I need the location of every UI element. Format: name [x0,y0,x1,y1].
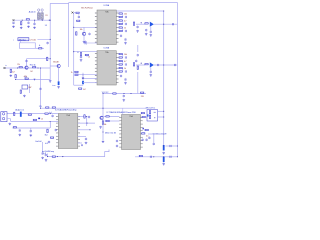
wire mic input bus y20.2 [13,19,51,21]
resistor R26 [119,60,126,63]
junction [50,113,51,114]
label r47 [104,124,107,126]
capacitor C38 electrolytic [163,145,165,151]
svg-text:0.5: 0.5 [146,136,148,138]
capacitor C23 [39,87,41,90]
op-amp A1 [150,22,154,27]
wire to U1 pin y27.3 [74,26,97,28]
label r12 [80,29,83,31]
junction [50,58,51,59]
wire k2 b [158,116,164,118]
svg-text:Audio Out: Audio Out [15,108,24,111]
capacitor C3 [33,22,35,25]
junction [50,121,51,122]
relay tick [147,114,148,116]
IC U3 TDA2009A [56,114,80,149]
wire op-amp1 input y24.2 [136,23,145,25]
resistor R35 [14,112,15,115]
junction [163,145,164,146]
label Audio In [29,10,37,13]
label q2 [53,61,58,63]
wire vcc y93.5 [103,93,146,95]
resistor R48 series [106,120,109,121]
capacitor C21 [123,95,125,98]
capacitor C41 series [170,156,171,158]
mic jack J1 [37,9,43,20]
resistor R49b [141,112,144,113]
junction [141,63,142,64]
resistor R38 [20,90,21,93]
wire x153.8 drop [153,134,155,143]
resistor R33 series [113,93,116,94]
wire a1 gnd [150,27,152,31]
capacitor C27b [48,141,50,144]
capacitor C35 [146,138,148,141]
svg-text:Audio In: Audio In [29,10,37,13]
junction [34,20,35,21]
op-amp A2 [150,62,154,67]
wire row links U2 [122,54,124,72]
relay K2 box [147,110,158,122]
label U2 [104,47,110,50]
svg-text:10k: 10k [124,54,127,56]
resistor R8 series [25,78,28,79]
pot arrow [38,118,43,121]
resistor R7 [15,75,16,78]
capacitor C15 [124,78,127,84]
label mid3 [12,72,15,74]
junction [163,24,164,25]
ground G12 [123,99,126,102]
wire op-amp2 output y65 [154,64,178,66]
transistor Q1 [25,66,28,69]
junction [17,67,18,68]
label k2 [146,107,156,109]
transistor Q3 [82,32,85,35]
capacitor C18 series [175,64,176,66]
label U4 TDA2030 [107,111,136,114]
label r15c [83,89,86,91]
svg-text:in: in [6,65,7,67]
label q4 [71,72,73,74]
junction [163,156,164,157]
ground G19b [136,30,139,33]
junction [73,51,74,52]
wire a2 gnd [150,68,152,71]
capacitor C2 [27,21,29,24]
junction [177,156,178,157]
resistor R39 series on bus [46,107,49,108]
capacitor C33 [116,144,118,147]
ground G2 [20,26,23,29]
capacitor C17 series [158,64,159,66]
ground G4 [33,26,36,29]
wire jack top y113.6 [7,113,59,115]
svg-text:1k: 1k [124,68,126,70]
capacitor C7 [88,32,90,35]
junction [42,20,43,21]
capacitor C5 electrolytic [58,81,60,85]
capacitor C8 [80,55,82,58]
ground G14 [23,94,26,97]
resistor R20 [119,27,126,30]
ground G10 [150,34,153,37]
junction [40,108,41,109]
wire vertical x50.2 [50,3,68,80]
svg-text:1k2: 1k2 [30,71,33,73]
ground G20 [162,152,165,155]
IC U4 TDA2030 [119,115,142,150]
resistor R12 [76,32,77,35]
capacitor C14 [120,74,122,77]
svg-text:22k: 22k [17,64,20,66]
ground G7 [57,86,60,89]
resistor R23 [145,23,148,24]
capacitor C4 [25,60,27,63]
label VCC [102,92,110,94]
capacitor C19b [137,25,139,28]
resistor R41b series [45,113,48,114]
resistor R42 [13,127,16,128]
junction [163,111,164,112]
junction [40,67,41,68]
capacitor C39 series [170,145,171,147]
wire q3 up [83,27,85,32]
jack J2 [1,112,7,122]
junction [163,64,164,65]
junction [82,78,83,79]
wire u3 r3 [78,129,90,131]
resistor R11 [77,20,80,21]
capacitor C9 [120,34,122,37]
resistor R40 series on bus [52,107,55,108]
svg-text:Pre: Pre [85,43,88,45]
svg-text:4.7: 4.7 [124,61,126,63]
resistor R30 [133,63,134,66]
wire u4 in2 [105,120,120,122]
ground G15 [19,133,22,136]
junction [82,74,83,75]
label u3b [45,134,48,136]
wire op-amp1 output y24.2 [154,23,178,25]
ground G3 [27,25,30,28]
label 1.5V [45,25,48,27]
arrow up A [142,127,144,129]
capacitor C8b [82,77,84,80]
capacitor C26 [30,130,32,133]
ground G16 [30,134,33,137]
wire jack bottom y121.6 [11,121,58,123]
capacitor C7b [84,40,86,43]
resistor R10 [76,12,79,13]
relay internals [149,111,155,119]
comp arrow [34,79,36,81]
capacitor C10 [124,38,127,44]
svg-text:4.7k: 4.7k [24,76,27,78]
arrow out [81,145,83,147]
label R6 value [30,64,36,66]
wire stub x34.5 [34,20,36,23]
wire y68 left [4,67,51,69]
wire corner y85.2 [74,84,83,86]
resistor R45 [84,115,85,118]
wire vertical x137.8 lower [137,72,139,94]
junction [57,156,58,157]
wire vertical x83 [82,73,84,86]
wire x141 stub [140,23,142,25]
resistor R15 [75,74,78,75]
svg-text:REL 12V DC: REL 12V DC [146,107,156,109]
capacitor C32 [116,139,118,142]
svg-text:U-TBA: U-TBA [104,47,110,50]
ground G19 [102,140,105,143]
ground G17 [85,141,88,144]
resistor R37 [33,119,36,120]
ground G6 [49,80,52,83]
wire row links U1 [122,14,124,32]
wire x29.5 [29,84,31,93]
capacitor C40 electrolytic [163,157,165,163]
wire y43 stub [83,42,97,44]
resistor R4 [10,69,11,72]
svg-text:10k: 10k [80,29,83,31]
wire y79.5 left [16,79,51,81]
resistor R19 [119,23,126,25]
label U2b [85,43,88,45]
wire vertical x73.7 [73,12,75,85]
wire u3 r4 [78,135,86,137]
capacitor C3b [47,42,49,45]
wire vertical x42.6 bottom [42,142,44,153]
wire supply bus y108.2 [41,107,147,109]
label out full [35,140,42,143]
label after box [30,39,36,41]
svg-text:MIC Bus: MIC Bus [19,39,26,41]
resistor R27 [119,63,126,65]
junction [153,156,154,157]
resistor R48b series [106,116,109,117]
resistor R24 [119,53,127,56]
wire y134 link [148,133,164,135]
svg-text:SW: SW [28,87,31,89]
capacitor C37b [148,136,150,139]
wire label to x50 [37,38,50,40]
wire x58.6 branch [50,66,58,81]
svg-text:MIC Full Power: MIC Full Power [81,6,93,9]
relay K1 box [22,85,28,89]
resistor R1 [21,22,22,25]
label meter onoff [153,133,167,136]
ground G1 [12,25,15,28]
node mic bus left X [13,19,15,21]
wire to U2 pin y51.7 [74,51,97,53]
wire vertical right rail x163.7 [163,11,165,145]
junction [86,116,87,117]
wire bottom y156.6 [48,150,110,157]
wire u3 r2 [78,122,95,124]
label 12V [39,106,43,108]
label under U3 [42,150,54,153]
capacitor C27 [55,129,57,132]
junction [50,20,51,21]
node X y68 [4,67,6,69]
svg-text:t. on: t. on [52,84,55,87]
resistor loop series [39,48,42,49]
ground G23 [99,126,102,129]
wire vertical x103 [102,94,104,141]
wire vertical x86.7 [86,117,88,127]
resistor R32 [137,66,138,69]
ground G22 [41,156,44,159]
junction [50,39,51,40]
wire U2 pin stubs left [75,75,98,83]
svg-text:4.7: 4.7 [124,20,126,22]
wire stub [34,78,36,81]
IC U1 TBA820M [95,10,119,45]
junction [89,129,90,130]
svg-text:BC548: BC548 [53,61,58,63]
svg-text:4u7: 4u7 [12,72,15,74]
wire jack lower drop [7,119,11,122]
wire y128 row [13,127,51,129]
transistor Q5 [100,116,103,119]
capacitor C29 [85,137,87,140]
net label box [18,38,29,42]
capacitor C16 [150,70,152,73]
label mid1 [6,65,7,67]
label U3 IC TDA2009A [55,109,77,112]
resistor R18 [119,20,126,23]
resistor R15c [79,88,82,89]
wire k2 a [158,110,164,112]
label net c7 [13,39,14,41]
svg-text:10k: 10k [104,124,107,126]
capacitor C34 [142,138,144,141]
resistor R47 [102,121,103,124]
junction [15,79,16,80]
resistor R44 [50,137,53,138]
svg-text:220: 220 [141,96,144,98]
junction [163,10,164,11]
label mid2 [17,64,20,66]
ground G11 [150,74,153,77]
resistor R22 [133,22,134,25]
wire top border net [69,3,178,157]
label k1 [28,87,31,89]
capacitor C42 [42,152,44,155]
junction [102,131,103,132]
wire x47.5 up [47,154,49,157]
node X center [71,12,73,14]
wire vertical x68.6 [68,3,70,67]
wire x50.3 drop [49,122,51,128]
resistor R34 [141,92,144,98]
svg-text:4k7: 4k7 [83,89,86,91]
svg-text:Meter Out 1N: Meter Out 1N [105,132,116,135]
capacitor C37 series [150,156,151,158]
junction [163,133,164,134]
capacitor C8c electrolytic [82,81,84,84]
junction [130,93,131,94]
label U1 [104,4,110,7]
resistor R13 [80,53,81,56]
resistor R9 [47,57,51,60]
wire vertical x137.8 upper [137,45,139,52]
svg-text:C7 100n: C7 100n [30,39,36,41]
svg-text:IC TDA2009A Power Amp: IC TDA2009A Power Amp [55,109,77,112]
wire bottom right y156.8 [135,156,165,158]
wire branch x79 [74,13,79,16]
resistor R52 [139,155,142,156]
capacitor C1 [12,21,14,24]
junction [73,27,74,28]
wire U1 pin1 to right rail [116,10,163,12]
junction [141,22,142,23]
capacitor C22 electrolytic [18,109,21,116]
resistor R49 [142,116,148,119]
resistor R31 [145,64,148,65]
ground G8 [83,40,86,43]
resistor R6 [33,67,36,68]
wire x30.8 drop [30,128,32,130]
capacitor C25 [19,129,21,132]
resistor R5 [19,67,22,68]
wire u3 r1 [78,116,87,118]
junction [102,93,103,94]
capacitor C19 [137,54,139,57]
capacitor C30 [45,154,47,157]
junction [177,145,178,146]
junction [163,116,164,117]
wire Q1 collector [26,59,28,66]
resistor R14 [75,71,78,72]
ground G21 [162,163,165,166]
junction [102,108,103,109]
ground G13 [9,122,12,125]
svg-text:R10 1k: R10 1k [30,64,36,66]
wire u3 r5 [78,142,82,144]
label top small [52,84,55,87]
ground G5 [10,74,13,77]
arrow comp [86,55,88,57]
resistor R2 series [26,19,29,20]
svg-text:R1: R1 [45,15,47,17]
capacitor C6 [78,15,80,18]
transistor Q2 [57,64,60,67]
junction [22,20,23,21]
wire y156.8 right [165,156,178,158]
resistor R17 [119,16,126,18]
resistor R46 [52,156,55,157]
junction [86,123,87,124]
label meter [105,132,116,135]
label mid5 [24,77,27,79]
wire y146 right [165,145,177,147]
capacitor C28 [88,116,90,119]
label MIC Full Power [81,6,93,9]
label loop [39,45,40,47]
label mid4 [30,71,33,73]
junction [47,156,48,157]
svg-text:1k: 1k [71,72,73,74]
label Audio Out [15,108,24,111]
resistor R36 [28,114,31,115]
capacitor C36 [153,142,155,145]
svg-text:10k: 10k [124,13,127,15]
resistor R29 [119,70,126,72]
resistor R50 [145,129,148,130]
ground G18 [45,159,48,162]
